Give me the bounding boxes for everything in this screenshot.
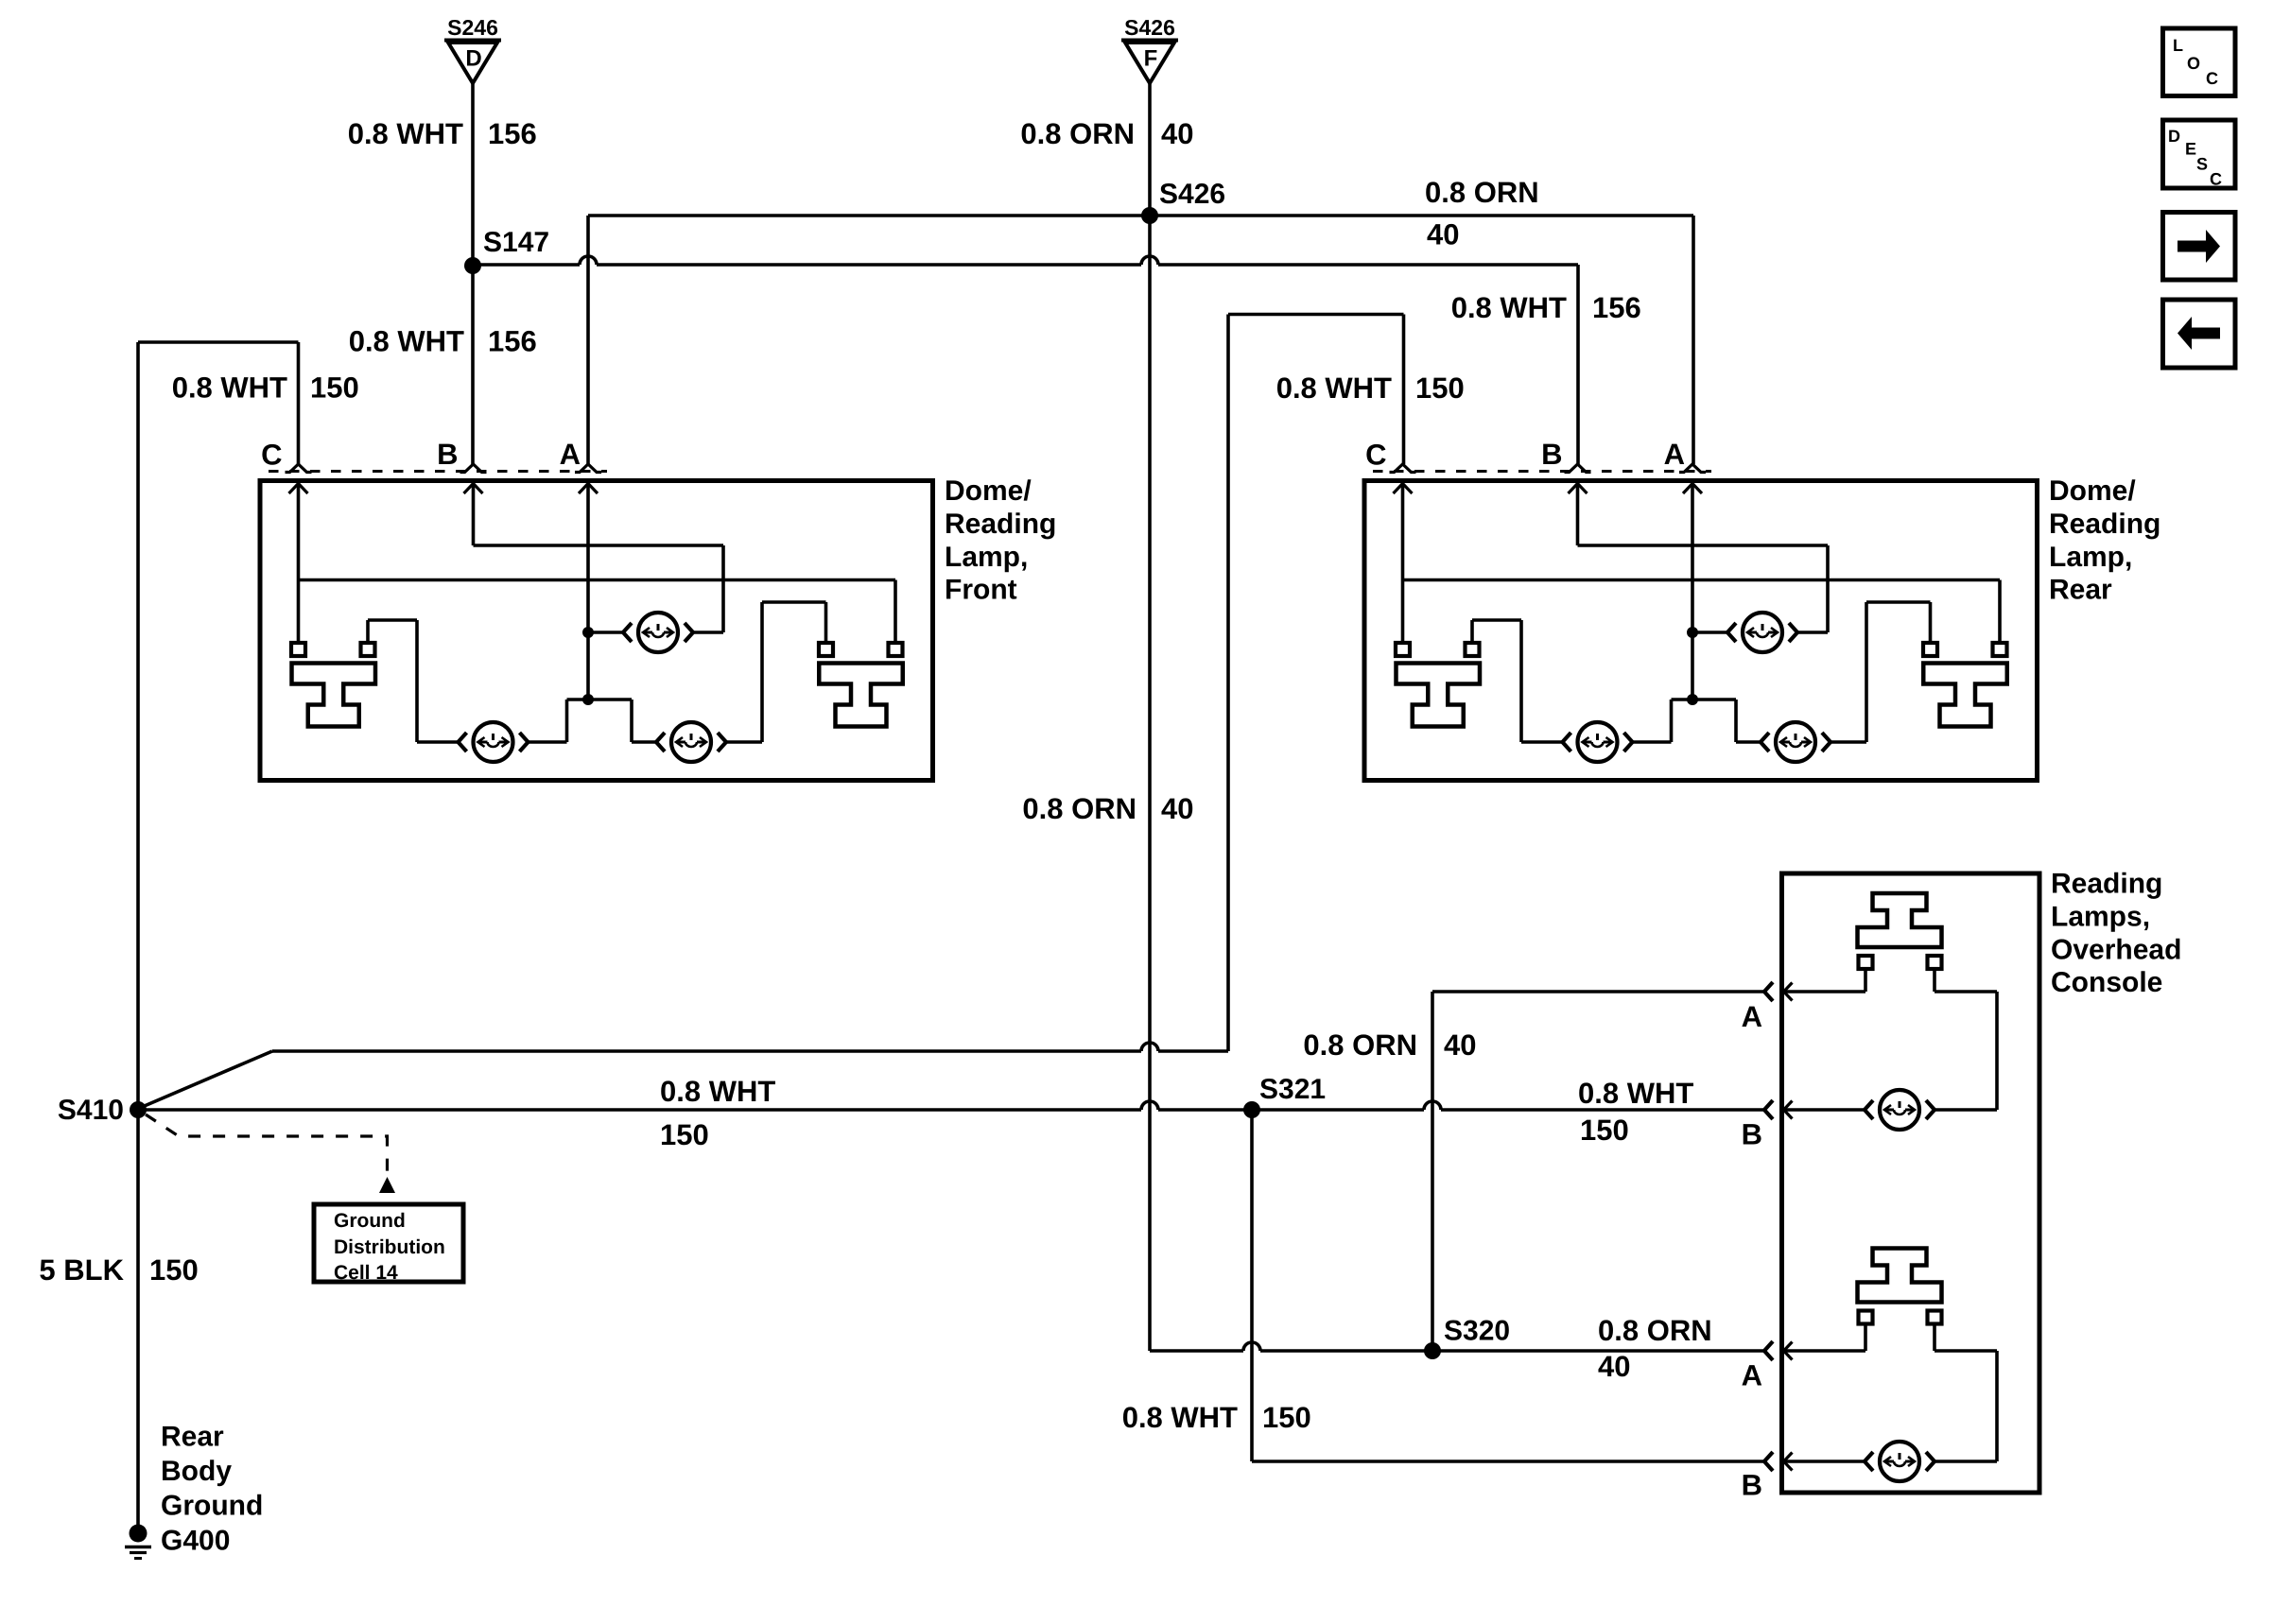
svg-text:Rear: Rear [2049,575,2112,606]
ground symbol G400 [125,1525,151,1559]
console top lamp: wire B from right square around to bulb [1935,969,1997,1110]
svg-text:S426: S426 [1124,15,1175,40]
svg-text:150: 150 [660,1118,709,1151]
front box: left lamp terminal squares [291,643,375,656]
rear box: pin B arrow inside [1569,484,1588,546]
svg-text:156: 156 [488,325,537,358]
svg-text:150: 150 [310,371,359,405]
rear box: pin A terminal [1664,438,1706,473]
svg-text:40: 40 [1161,117,1193,150]
wire 0.8 WHT 150 vertical x=1299 [1226,315,1230,1052]
label 0.8 ORN 40 (top) [1020,117,1193,150]
wire 0.8 ORN 40 bottom horizontal to S320 and console pin A (bottom lamp) [1150,1342,1764,1351]
console bottom lamp: lamp element (inverted) [1858,1249,1942,1303]
svg-text:Ground: Ground [161,1491,263,1522]
svg-text:0.8 WHT: 0.8 WHT [349,325,464,358]
console pin B (bottom lamp) [1742,1452,1793,1502]
front box: left reading bulb [417,722,567,762]
svg-text:A: A [1742,1000,1762,1033]
svg-text:D: D [2168,127,2180,146]
svg-text:O: O [2187,54,2200,73]
svg-text:0.8 ORN: 0.8 ORN [1022,792,1136,825]
svg-text:Reading: Reading [2051,869,2162,900]
reference arrowhead [379,1177,395,1193]
rear box: right reading bulb [1736,722,1866,762]
rear box: junction dot on A at lower branch [1687,694,1698,705]
svg-text:Ground: Ground [334,1210,406,1232]
dashed reference line from S410 to Ground Distribution [146,1114,388,1175]
svg-text:0.8 ORN: 0.8 ORN [1598,1314,1712,1347]
label 0.8 WHT / 150 (long wire) [660,1075,775,1151]
front box: right lamp element [819,664,903,727]
svg-text:A: A [1742,1359,1762,1392]
splice S320 [1424,1316,1510,1360]
Ground Distribution Cell 14 box [314,1204,463,1284]
rear box: wire lower branch left [1672,700,1737,742]
rear box: pin C arrow inside [1394,484,1413,644]
svg-text:Lamps,: Lamps, [2051,901,2150,932]
svg-text:0.8 ORN: 0.8 ORN [1020,117,1135,150]
console top lamp: wire A from left square to pin [1784,969,1866,992]
svg-text:B: B [1742,1469,1762,1502]
svg-text:150: 150 [1415,371,1465,405]
label 0.8 WHT / 150 (right of S321) [1578,1077,1693,1147]
svg-text:Console: Console [2051,967,2162,998]
svg-text:Front: Front [945,575,1017,606]
icon box arrow right [2163,213,2236,281]
label 0.8 WHT 156 (right) [1451,291,1641,324]
rear box: center bulb (dome lamp) [1692,613,1828,652]
svg-text:S321: S321 [1259,1074,1326,1105]
wire drop to rear lamp pin B [1576,265,1580,464]
front box: junction dot on A at bulb1 [582,627,594,638]
svg-text:156: 156 [488,117,537,150]
console bottom lamp: reading bulb [1784,1442,1935,1481]
svg-text:L: L [2173,36,2183,55]
svg-text:Reading: Reading [945,509,1056,540]
console pin A (top lamp) [1742,982,1793,1033]
front box: dome/reading lamp box outline [260,481,933,781]
splice S426 [1141,179,1225,224]
rear box: wire B to center bulb [1578,545,1829,632]
svg-text:156: 156 [1592,291,1641,324]
svg-text:Dome/: Dome/ [2049,475,2136,507]
front box: box label [945,475,1056,605]
svg-text:A: A [1664,438,1685,471]
wire 0.8 WHT 150 from front lamp pin C up/left/down to S410 [138,342,299,1110]
console top lamp: reading bulb [1784,1090,1935,1130]
console bottom lamp: wire A from left square to pin [1784,1324,1866,1352]
svg-text:0.8 WHT: 0.8 WHT [1122,1401,1238,1434]
rear box: left reading bulb [1521,722,1672,762]
svg-text:C: C [2210,170,2222,189]
svg-text:0.8 ORN: 0.8 ORN [1425,176,1539,209]
svg-text:Dome/: Dome/ [945,475,1032,507]
svg-text:Cell 14: Cell 14 [334,1262,398,1284]
icon box arrow left [2163,300,2236,368]
svg-text:Lamp,: Lamp, [2049,542,2132,573]
wire 0.8 WHT 150 to rear lamp pin C (horizontal) [1228,313,1404,317]
wire drop to rear lamp pin A [1692,216,1695,464]
front box: wire right bulb to right lamp [762,602,826,742]
rear box: wire left bulb to left lamp [1472,620,1521,742]
wire 5 BLK 150 from S410 down to G400 [136,1110,140,1527]
svg-text:0.8 WHT: 0.8 WHT [660,1075,775,1108]
svg-text:S426: S426 [1159,179,1225,210]
label 0.8 WHT 156 (lower) [349,325,537,358]
rear box: box label [2049,475,2160,605]
svg-text:S410: S410 [58,1095,124,1126]
rear box: wire right bulb to right lamp [1866,602,1931,742]
splice S147 [464,227,549,274]
icon box DESC [2163,120,2236,189]
rear box: wire C to right lamp (horizontal) [1403,580,2001,644]
wire drop to front lamp pin A [586,216,590,464]
rear box: pin A arrow inside [1683,484,1702,700]
svg-text:0.8 WHT: 0.8 WHT [348,117,463,150]
front box: right lamp terminal squares [819,643,903,656]
rear box: pin B terminal [1541,438,1590,473]
label 0.8 ORN 40 (console branch) [1303,1028,1476,1062]
svg-text:Reading: Reading [2049,509,2160,540]
label 5 BLK 150 [39,1253,198,1287]
svg-text:B: B [1541,438,1562,471]
svg-text:0.8 WHT: 0.8 WHT [1578,1077,1693,1110]
wire 0.8 WHT 156 from S147 to front lamp pin B [471,266,475,464]
rear box: left lamp terminal squares [1396,643,1480,656]
svg-text:B: B [437,438,458,471]
rear box: pin C terminal [1365,439,1415,473]
console bottom lamp: lamp terminal squares [1859,1311,1942,1324]
svg-text:0.8 WHT: 0.8 WHT [1451,291,1567,324]
wire 0.8 ORN 40 horizontal (front A to rear A via S426) [588,214,1693,217]
console top lamp: lamp element (inverted) [1858,893,1942,947]
svg-text:0.8 WHT: 0.8 WHT [172,371,287,405]
rear box: junction dot on A at bulb1 [1687,627,1698,638]
front box: wire lower branch left [567,700,633,742]
svg-text:S: S [2196,155,2208,174]
rear box: right lamp element [1923,664,2007,727]
wire 0.8 ORN 40 vertical from S426 down to corner [1148,216,1152,1351]
rear box: right lamp terminal squares [1923,643,2007,656]
svg-text:40: 40 [1161,792,1193,825]
rear box: dome/reading lamp box outline [1364,481,2038,781]
svg-text:C: C [261,439,282,472]
front box: pin C terminal [261,439,311,473]
front box: connector dashed line [269,470,607,473]
svg-text:5 BLK: 5 BLK [39,1253,124,1287]
label 0.8 ORN 40 (middle) [1022,792,1193,825]
label 0.8 WHT 150 (rear C) [1276,371,1465,405]
wire horizontal y=1112 to x=1299 [272,1043,1228,1051]
front box: left lamp element [292,664,376,727]
front box: junction dot on A at lower branch [582,694,594,705]
svg-text:Lamp,: Lamp, [945,542,1028,573]
wire 0.8 WHT 156 horizontal from S147 to rear lamp pin B [473,256,1578,265]
wire 0.8 WHT 150 from S410 to overhead console pin B [138,1101,1764,1110]
svg-text:Body: Body [161,1456,232,1487]
console pin A (bottom lamp) [1742,1341,1793,1392]
splice S321 [1243,1074,1326,1118]
front box: right reading bulb [632,722,762,762]
wire 0.8 WHT 156 from S246 down to S147 [471,83,475,266]
svg-text:0.8 WHT: 0.8 WHT [1276,371,1392,405]
front box: wire lower branch right [630,700,633,742]
svg-text:S320: S320 [1444,1316,1510,1347]
svg-text:Rear: Rear [161,1422,224,1453]
svg-text:150: 150 [1262,1401,1311,1434]
front box: wire B to center bulb [474,545,724,632]
console bottom lamp: wire B from right square around to bulb [1935,1324,1997,1462]
connector triangle S426 (to F) [1121,15,1178,83]
front box: center bulb (dome lamp) [588,613,723,652]
front box: wire left bulb to left lamp [368,620,417,742]
svg-text:C: C [1365,439,1386,472]
svg-text:E: E [2185,140,2196,159]
front box: pin B terminal [437,438,486,473]
svg-text:F: F [1144,46,1158,72]
label 0.8 ORN / 40 (horizontal wire) [1425,176,1539,251]
front box: wire C to right lamp (horizontal) [299,580,896,644]
front box: pin A arrow inside [579,484,598,700]
svg-text:Overhead: Overhead [2051,934,2181,965]
label 0.8 ORN / 40 (after S320) [1598,1314,1712,1383]
svg-text:C: C [2206,69,2218,88]
svg-text:A: A [560,438,581,471]
rear box: wire lower branch right [1734,700,1738,742]
wire drop to rear lamp pin C [1402,315,1406,465]
svg-text:0.8 ORN: 0.8 ORN [1303,1028,1417,1062]
svg-text:40: 40 [1444,1028,1476,1062]
rear box: left lamp element [1397,664,1481,727]
console top lamp: lamp terminal squares [1859,956,1942,969]
svg-text:40: 40 [1598,1350,1630,1383]
label 0.8 WHT 156 (upper) [348,117,537,150]
svg-text:D: D [465,46,481,72]
wire 0.8 ORN 40 from F down to S426 splice [1148,83,1152,216]
svg-text:Distribution: Distribution [334,1236,445,1258]
svg-text:S246: S246 [447,15,498,40]
overhead console box outline [1782,873,2040,1493]
icon box LOC [2163,28,2236,96]
svg-text:40: 40 [1427,218,1459,251]
front box: pin B arrow inside [464,484,483,546]
label Rear Body Ground G400 [161,1422,263,1557]
console box label [2051,869,2181,999]
svg-text:G400: G400 [161,1525,230,1556]
svg-text:150: 150 [1580,1114,1629,1147]
rear box: connector dashed line [1373,470,1711,473]
console pin B (top lamp) [1742,1100,1793,1151]
svg-text:B: B [1742,1118,1762,1151]
wire diagonal from S410 to rear-C branch [140,1051,272,1108]
svg-text:150: 150 [149,1253,199,1287]
label 0.8 WHT 150 (front C) [172,371,359,405]
front box: pin C arrow inside [289,484,308,644]
wire 0.8 ORN 40 from S320 up to console pin A (top lamp) [1432,992,1764,1351]
label 0.8 WHT 150 (S321 drop) [1122,1401,1311,1434]
front box: pin A terminal [560,438,601,473]
splice S410 [58,1095,147,1126]
svg-text:S147: S147 [483,227,549,258]
wire 0.8 WHT 150 from S321 down then right to console pin B (bottom lamp) [1252,1110,1764,1461]
connector triangle S246 (to D) [444,15,501,83]
